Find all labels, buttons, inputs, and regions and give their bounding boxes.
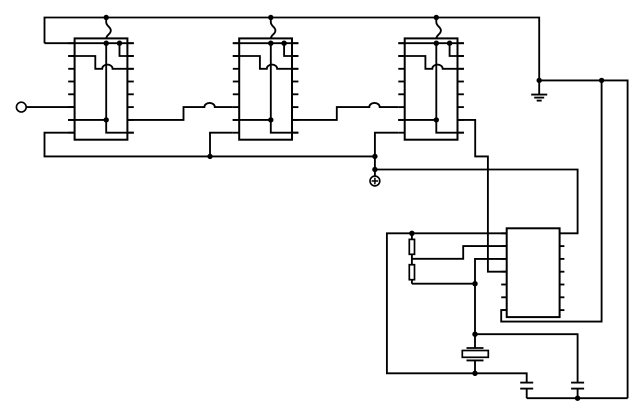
- capacitor C1: [520, 383, 533, 399]
- connector J1 input circle: [16, 102, 26, 112]
- wire U3 pin-2-to-3 with hop: [398, 56, 464, 69]
- resistor R1: [409, 233, 414, 254]
- IC U2 right pins: [292, 43, 298, 133]
- wire power bus from U1 pin 13: [45, 133, 375, 157]
- wire curved drop to U1 pin row 1: [106, 18, 111, 44]
- IC U4 left pins: [501, 233, 507, 310]
- wire U1 pin-2 link: [120, 43, 134, 56]
- node U2 pin-2 junction: [281, 41, 286, 46]
- wire U3 pin-1 row: [398, 42, 464, 44]
- wire U2 pin-12 row: [233, 119, 271, 121]
- node U3 pin-2 junction: [447, 41, 452, 46]
- wire U2 pin-2-to-3 with hop: [233, 56, 299, 69]
- IC U1 left pins: [68, 43, 74, 133]
- wire U2 output to U3 input with hop: [292, 103, 398, 120]
- node U3 pin-13 junction: [434, 117, 439, 122]
- wire node bus to U4 pin 1 and crystal: [387, 233, 527, 382]
- wire U3 output to U4 pin 4: [458, 120, 507, 272]
- wire U2 internal vertical: [270, 43, 272, 120]
- wire crystal top to C2: [475, 334, 578, 382]
- power V+ symbol: [370, 176, 380, 186]
- IC U4 right pins: [560, 246, 565, 310]
- wire U3 internal vertical: [435, 43, 437, 120]
- wire U2 pin-1 row: [233, 42, 299, 44]
- node power bus end: [372, 154, 377, 159]
- node crystal bottom junction: [472, 371, 477, 376]
- wire U2 pin-13 link: [271, 120, 299, 133]
- wire V+ to U4 pin 16: [375, 170, 578, 234]
- node C2 bottom junction: [575, 396, 580, 401]
- wire R2 bottom: [412, 283, 475, 285]
- node ground bus branch: [599, 78, 604, 83]
- wire U1 pin-1 row: [45, 42, 134, 44]
- capacitor C2: [571, 383, 584, 399]
- wire ground branch to U4 pin 8 wrap: [501, 80, 601, 321]
- node ground junction: [537, 78, 542, 83]
- IC U3 body: [405, 38, 458, 139]
- IC U3 left pins: [398, 43, 404, 133]
- wire U3 pin-13 link: [436, 120, 464, 133]
- wire U4 pin 3 to crystal top: [475, 259, 507, 348]
- wire input to U1 pin 6: [26, 106, 74, 108]
- node crystal top junction: [472, 332, 477, 337]
- wire U1 pin-12 row: [68, 119, 106, 121]
- node top bus junction above U3: [434, 15, 439, 20]
- node R1 top: [409, 231, 414, 236]
- node U2 pin-1 junction: [268, 41, 273, 46]
- node top bus junction above U2: [268, 15, 273, 20]
- wire top supply bus: [45, 18, 540, 81]
- wire U1 output to U2 input with hop: [127, 103, 232, 120]
- IC U1 right pins: [127, 43, 133, 133]
- wire U1 pin-13 link: [106, 120, 134, 133]
- node U1 pin-1 junction: [104, 41, 109, 46]
- wire U2 pin-2 link: [284, 43, 298, 56]
- node U1 pin-2 junction: [117, 41, 122, 46]
- wire curved drop to U2 pin row 1: [271, 18, 276, 44]
- wire curved drop to U3 pin row 1: [436, 18, 441, 44]
- wire U3 pin-12 row: [398, 119, 436, 121]
- IC U2 left pins: [233, 43, 239, 133]
- node top bus junction above U1: [104, 15, 109, 20]
- node power bus at U2 feed: [207, 154, 212, 159]
- resistor R2: [409, 265, 414, 284]
- ground symbol: [531, 80, 547, 100]
- wire U2 pin-13 feed: [210, 133, 233, 157]
- wire R1-R2 mid node: [411, 254, 413, 264]
- IC U4 body: [507, 228, 560, 317]
- wire U3 pin-2 link: [450, 43, 464, 56]
- crystal Y1: [462, 348, 488, 373]
- wire bottom ground bus: [527, 397, 628, 399]
- wire ground bus: [539, 80, 627, 398]
- wire U3 pin-13 feed and V+ stem: [375, 133, 398, 177]
- node R2 junction: [472, 281, 477, 286]
- wire U1 pin-2-to-3 with hop: [68, 56, 134, 69]
- IC U1 body: [75, 38, 128, 139]
- wire U1 internal vertical: [105, 43, 107, 120]
- IC U2 body: [239, 38, 292, 139]
- node U2 pin-13 junction: [268, 117, 273, 122]
- IC U3 right pins: [458, 43, 464, 133]
- node V+ branch: [372, 167, 377, 172]
- node U1 pin-13 junction: [104, 117, 109, 122]
- wire mid node to U4 pin 2: [412, 246, 507, 259]
- node U3 pin-1 junction: [434, 41, 439, 46]
